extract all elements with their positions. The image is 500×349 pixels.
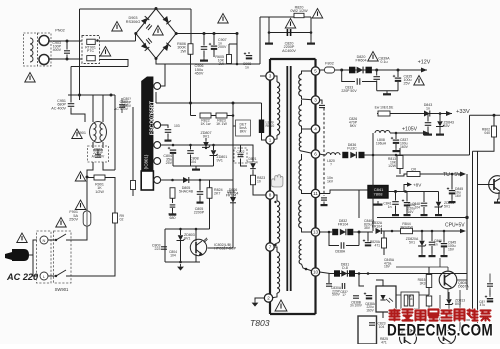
wire fuse up to node: [86, 177, 88, 211]
arrow CPU+5V: [460, 229, 466, 234]
capacitor C839A: [373, 77, 380, 80]
wire C804 down: [172, 154, 174, 166]
ground row3: [192, 166, 200, 170]
diode D821: [250, 163, 256, 168]
wire C841 down: [395, 206, 397, 213]
node 33 riser: [395, 154, 398, 157]
node 10 a: [358, 272, 361, 275]
svg-text:8: 8: [269, 193, 272, 198]
svg-text:SW901: SW901: [55, 287, 69, 292]
wire opto left drop: [164, 229, 166, 262]
terminal circle upper: [39, 36, 49, 46]
node C903 bottom: [66, 58, 69, 61]
terminal circle lower: [39, 55, 49, 65]
wire R824 top: [209, 180, 211, 188]
sec1 stub bottom: [302, 96, 316, 100]
diode body D820 left: [349, 67, 355, 74]
warning triangle above rail: [218, 14, 229, 24]
resistor R902 on riser: [113, 213, 118, 223]
wire R605 up: [228, 44, 230, 55]
pin circle IC801 pin1: [154, 83, 161, 90]
wire 11 to reg: [330, 190, 359, 218]
ground Q803: [494, 199, 500, 203]
wire RT901 upper out: [100, 40, 136, 42]
switch contact upper: [48, 239, 56, 241]
op-amp IC801 lower body: [141, 171, 153, 190]
svg-text:C903100P400V: C903100P400V: [52, 41, 61, 52]
wire det stub: [233, 125, 236, 127]
wire R820A up: [383, 231, 385, 238]
wire C822 net: [240, 145, 242, 152]
node cpu a: [391, 230, 394, 233]
pin 13 right: [311, 228, 319, 236]
wire IC pin5 row: [161, 179, 233, 181]
capacitor C835: [393, 75, 401, 81]
zener ZD820A: [418, 241, 426, 246]
wire right riser upper: [114, 95, 116, 170]
wire reg out: [388, 191, 415, 193]
capacitor C908: [244, 52, 252, 58]
svg-text:11: 11: [313, 191, 318, 196]
svg-text:C8?47u: C8?47u: [479, 300, 485, 307]
sec2 stub bottom: [302, 126, 316, 129]
resistor R826: [170, 188, 175, 199]
capacitor C822: [238, 154, 244, 156]
capacitor C860: [429, 242, 436, 245]
wire loop right: [346, 245, 359, 247]
node 33v: [493, 114, 496, 117]
sec4 stub top: [301, 154, 303, 160]
capacitor C804: [168, 147, 176, 153]
winding primary aux: [277, 201, 280, 243]
wire 33v left bus: [377, 113, 452, 115]
wire Q804 to 467: [457, 279, 467, 281]
resistor Rw: [378, 111, 390, 116]
capacitor C830A: [326, 284, 332, 286]
wire 105v out: [390, 132, 429, 134]
wire snubber feed riser: [259, 17, 261, 64]
wire return bus drop: [70, 67, 72, 96]
capacitor C809: [165, 130, 172, 133]
wire IC pin3 row: [161, 144, 233, 146]
wire ZD841 down: [438, 208, 440, 213]
pin 8 left: [266, 191, 274, 199]
node 105v: [395, 132, 398, 135]
diode D831: [341, 270, 347, 276]
wire snubber top: [260, 16, 311, 18]
bridge snubber cap upper: [146, 24, 152, 30]
bridge diode top-right: [163, 16, 171, 24]
wire C843 down: [427, 127, 429, 132]
pin 7 left: [266, 243, 274, 251]
node row3 c: [205, 147, 207, 149]
wire C839A down: [376, 81, 378, 91]
sec1 stub top: [302, 71, 316, 74]
pin 3 right: [311, 96, 319, 104]
wire box left exit: [87, 162, 93, 177]
wire left col lower: [132, 190, 134, 197]
wire bottom bus: [396, 319, 470, 321]
wire C809 down: [167, 134, 169, 138]
resistor network box: [401, 292, 419, 309]
svg-text:103: 103: [174, 124, 180, 128]
capacitor C951: [68, 104, 75, 107]
svg-text:3: 3: [314, 98, 317, 103]
svg-text:1: 1: [269, 138, 272, 143]
wire C846 low: [489, 288, 491, 296]
wire right vert b: [477, 151, 479, 330]
svg-text:+33V: +33V: [456, 109, 470, 115]
capacitor C905: [201, 47, 208, 50]
wire row3 gnd bus: [173, 165, 214, 167]
ground C809: [165, 137, 172, 141]
wire ZD843 down: [439, 127, 441, 132]
arrow TU+5V: [460, 172, 466, 177]
wire left col: [132, 107, 134, 180]
node bus y217 right: [465, 216, 468, 219]
resistor R802: [492, 126, 497, 137]
node 8v a: [394, 190, 397, 193]
warning triangle 12v: [414, 76, 425, 86]
wire lower return bus: [71, 66, 128, 68]
node y95 right: [110, 94, 113, 97]
wire C808 leads: [190, 145, 192, 150]
pin 10 right: [311, 268, 319, 276]
warning triangle above switch: [56, 218, 67, 228]
node row5 a: [171, 179, 174, 182]
transistor Q803 right edge: [489, 176, 500, 194]
wire opto box lower lead: [382, 312, 384, 318]
wire D821 to R823b: [252, 170, 254, 176]
capacitor bottom1: [487, 299, 493, 301]
IC bottom box: [358, 316, 377, 344]
det box: [236, 120, 251, 136]
capacitor C902 dashed box: [88, 146, 109, 162]
wire B+ rail: [176, 33, 237, 35]
thermistor element lower: [87, 56, 96, 61]
diode D806: [230, 197, 236, 203]
wire res row: [191, 115, 197, 117]
transistor Q804: [439, 271, 457, 289]
wire reg in: [359, 189, 368, 191]
wire 373 down: [372, 155, 374, 231]
wire C845 up: [443, 231, 445, 243]
svg-text:5: 5: [314, 69, 317, 74]
wire C848 up: [423, 192, 425, 203]
capacitor C841: [392, 202, 399, 205]
wire ZD813 down: [448, 305, 450, 312]
wire C848 down: [423, 207, 425, 212]
diode body D831 left: [334, 270, 340, 276]
wire ZD803 down: [180, 241, 182, 262]
pin circle IC801 pin4: [154, 158, 161, 165]
diode D820: [357, 67, 363, 74]
svg-text:+12V: +12V: [418, 60, 431, 66]
svg-text:DET5mA8KV: DET5mA8KV: [239, 123, 247, 134]
winding sec 5: [299, 200, 302, 228]
wire net vert 440: [439, 258, 441, 267]
wire 10 cap drop: [328, 274, 330, 284]
wire opto box leads: [376, 280, 383, 286]
wire switch upper to fuse: [71, 226, 87, 240]
wire bottom vert2: [459, 290, 461, 331]
node mains junction: [86, 176, 89, 179]
network r2: [410, 295, 414, 306]
wire box right exit: [103, 162, 115, 170]
capacitor C805: [197, 192, 204, 195]
wire C833 loop: [342, 70, 355, 82]
node bus 233: [232, 102, 235, 105]
winding sec 2: [299, 105, 302, 126]
winding sec 4: [299, 160, 302, 190]
capacitor shield: [319, 105, 325, 107]
wire C842 up: [406, 192, 408, 202]
wire gnd bus opto: [165, 261, 200, 263]
wire left border down: [79, 9, 81, 100]
winding primary upper stub bottom: [270, 135, 277, 140]
transformer T803 outline: [270, 59, 316, 314]
warning triangle snubber: [285, 19, 296, 29]
fuse F802: [325, 67, 335, 73]
resistor R606: [188, 44, 193, 55]
wire R824 to bus: [209, 199, 211, 230]
capacitor C838A: [364, 292, 372, 298]
svg-text:CPU+5V: CPU+5V: [445, 223, 465, 229]
ground 12v: [383, 91, 391, 95]
sec6 stub bottom: [302, 264, 316, 272]
wire R606 lower: [190, 54, 192, 103]
svg-text:L809RF10: L809RF10: [266, 121, 275, 129]
diode D836: [350, 152, 356, 158]
wire 467 riser: [466, 174, 468, 218]
wire pin11 out: [320, 193, 331, 195]
diode D805: [183, 177, 189, 183]
ground opto bus: [177, 264, 184, 271]
node row3 b: [189, 144, 192, 147]
junction switch upper: [55, 239, 57, 241]
diode D843: [424, 111, 430, 117]
ground C905: [200, 57, 208, 61]
wire pin6 out: [320, 154, 327, 155]
diode D832: [340, 229, 346, 235]
wire pin10 row: [330, 273, 467, 275]
capacitor C846 right: [487, 284, 493, 286]
winding lower stub top: [270, 247, 277, 252]
wire opto collector: [195, 229, 197, 242]
resistor R844: [401, 228, 413, 233]
ground C860: [429, 253, 436, 257]
wire C845 down: [443, 248, 445, 254]
svg-text:N: N: [43, 238, 46, 243]
winding lower stub bottom: [270, 293, 277, 298]
wire 493 drop: [493, 115, 495, 125]
wire ZD801 down: [213, 156, 215, 166]
wire R813 up: [399, 148, 401, 156]
wire 105v riser: [372, 133, 374, 155]
wire TU5 row: [396, 174, 424, 176]
thermistor element upper: [87, 39, 96, 44]
arrow +12V: [421, 68, 427, 73]
wire rail 237 down: [236, 44, 238, 64]
node rail 237: [236, 32, 239, 35]
ground ZD813: [446, 311, 453, 315]
wire main bus y100: [156, 102, 233, 104]
wire C952 low: [121, 109, 123, 114]
winding sec 3: [299, 133, 301, 151]
node gnd bus: [179, 261, 182, 264]
bridge snubber cap lower: [146, 38, 152, 44]
wire pin2 to ground: [255, 298, 265, 300]
transistor Q806 bottom: [439, 328, 456, 345]
capacitor C903: [64, 51, 70, 53]
capacitor C808: [187, 151, 194, 154]
ground D845: [449, 199, 456, 203]
resistor R901: [94, 175, 105, 180]
capacitor C838B: [353, 296, 359, 298]
capacitor C838: [341, 242, 344, 249]
bridge rectifier D903 diamond: [136, 9, 176, 59]
node bridge left: [134, 32, 137, 35]
node 13 a: [328, 231, 331, 234]
svg-text:D806FR104: D806FR104: [226, 190, 237, 198]
wire C905 lower: [203, 51, 205, 58]
wire TU5 drop: [451, 174, 453, 183]
capacitor C842: [402, 199, 410, 205]
node bus64 237: [236, 63, 239, 66]
diode D832A: [376, 228, 382, 234]
wire R823b to pin8: [253, 185, 266, 195]
winding aux stub top: [270, 195, 277, 201]
transistor Q805 bottom: [400, 330, 417, 347]
node 12v a: [340, 69, 343, 72]
wire snubber left drop: [268, 17, 270, 40]
watermark Chinese text 织梦内容管理系统 (painted strokes): [390, 310, 491, 321]
node 105 riser: [372, 154, 375, 157]
node C903 top: [66, 40, 69, 43]
zener ZD803: [177, 235, 185, 240]
wire C902 stub: [97, 150, 99, 155]
zener ZD841: [435, 202, 443, 207]
wire ZD801 leads: [213, 145, 215, 150]
wire pin3r stub: [320, 100, 323, 104]
sec2 stub top: [301, 100, 303, 105]
svg-text:(IC801): (IC801): [144, 154, 149, 169]
wire 13 down: [358, 232, 360, 246]
resistor R822: [200, 113, 211, 118]
wire ZD813 leads: [448, 292, 450, 299]
diode body D820 right: [366, 67, 372, 74]
svg-text:DEDECMS.COM: DEDECMS.COM: [387, 321, 493, 340]
capacitor C803: [161, 247, 167, 249]
node winding b: [274, 244, 276, 246]
ground C805: [197, 199, 204, 203]
line filter coil: [30, 38, 33, 62]
wire bridge bottom bus: [156, 59, 260, 65]
svg-text:R8153K3: R8153K3: [418, 278, 426, 285]
ground C845: [441, 253, 448, 257]
wire C952 stub: [121, 98, 123, 104]
inductor L809 body: [259, 120, 264, 134]
arrow +33V: [446, 111, 452, 116]
pin 6 right: [311, 150, 319, 158]
diode body D836 left: [342, 152, 348, 158]
wire R826 down: [172, 198, 174, 203]
wire plug lower to switch box: [29, 255, 37, 276]
AC plug P901: [5, 249, 29, 261]
svg-text:CR: CR: [411, 168, 417, 172]
wire R815 up: [428, 267, 430, 275]
connector dashed box: [37, 231, 52, 283]
wire bottom vert1: [439, 295, 441, 320]
wire node to R901: [87, 177, 94, 179]
optocoupler IC802 box: [376, 286, 396, 312]
wire network to R815 bus: [419, 294, 429, 296]
wire C843 up: [427, 114, 429, 122]
wire snubber mid: [269, 32, 311, 34]
node bridge bottom: [155, 57, 158, 60]
transformer core line right: [290, 66, 292, 291]
wire IC top feed: [155, 92, 157, 103]
wire C951 lower lead: [71, 108, 85, 123]
wire R813 down: [399, 169, 401, 175]
capacitor C822 dashed box: [234, 148, 247, 163]
wire pin13 out: [320, 231, 333, 233]
node cpu c: [431, 230, 434, 233]
svg-text:2: 2: [267, 296, 270, 301]
zener ZD843: [436, 121, 444, 126]
svg-text:+8V: +8V: [413, 182, 422, 187]
wire C905 upper: [203, 34, 205, 46]
wire T901 right lead: [102, 95, 104, 122]
bridge diode bottom-right: [163, 43, 171, 51]
resistor R TU5: [407, 172, 420, 177]
svg-text:D820FR604: D820FR604: [355, 55, 366, 63]
wire R901 to riser: [105, 178, 115, 214]
pin 2 left: [264, 294, 272, 302]
capacitor below R826: [170, 205, 176, 207]
wire T901 right down: [102, 142, 104, 148]
node rail 204: [203, 32, 206, 35]
node opto b: [195, 228, 198, 231]
wire 467 down: [466, 218, 468, 291]
wire T901 left lead: [92, 95, 94, 122]
wire C822 top: [233, 145, 253, 155]
wire right vert a: [472, 151, 474, 320]
ground C842: [404, 212, 411, 216]
wire pin5 out: [320, 69, 428, 71]
ground C841: [392, 212, 399, 216]
svg-text:7: 7: [269, 245, 272, 250]
pin circle IC801 pin3: [154, 142, 161, 149]
switch contact lower: [48, 275, 56, 277]
winding primary lower: [277, 252, 280, 293]
wire Q804 collector: [447, 267, 449, 271]
wire bus y267: [396, 266, 448, 268]
wire top bus y95: [68, 94, 115, 96]
node bridge right: [175, 32, 178, 35]
svg-text:10: 10: [313, 270, 319, 275]
resistor R815: [426, 275, 432, 288]
wire D821 chain: [252, 155, 254, 162]
svg-text:R8231K 1W: R8231K 1W: [216, 119, 227, 127]
line filter PN02 dashed box right: [38, 33, 52, 66]
node 33v mid: [439, 112, 442, 115]
wire C860 up: [431, 231, 433, 241]
svg-text:7808: 7808: [374, 192, 384, 197]
capacitor C845: [439, 240, 447, 246]
wire C902 link: [93, 149, 103, 151]
wire Q803 emitter: [498, 192, 500, 199]
